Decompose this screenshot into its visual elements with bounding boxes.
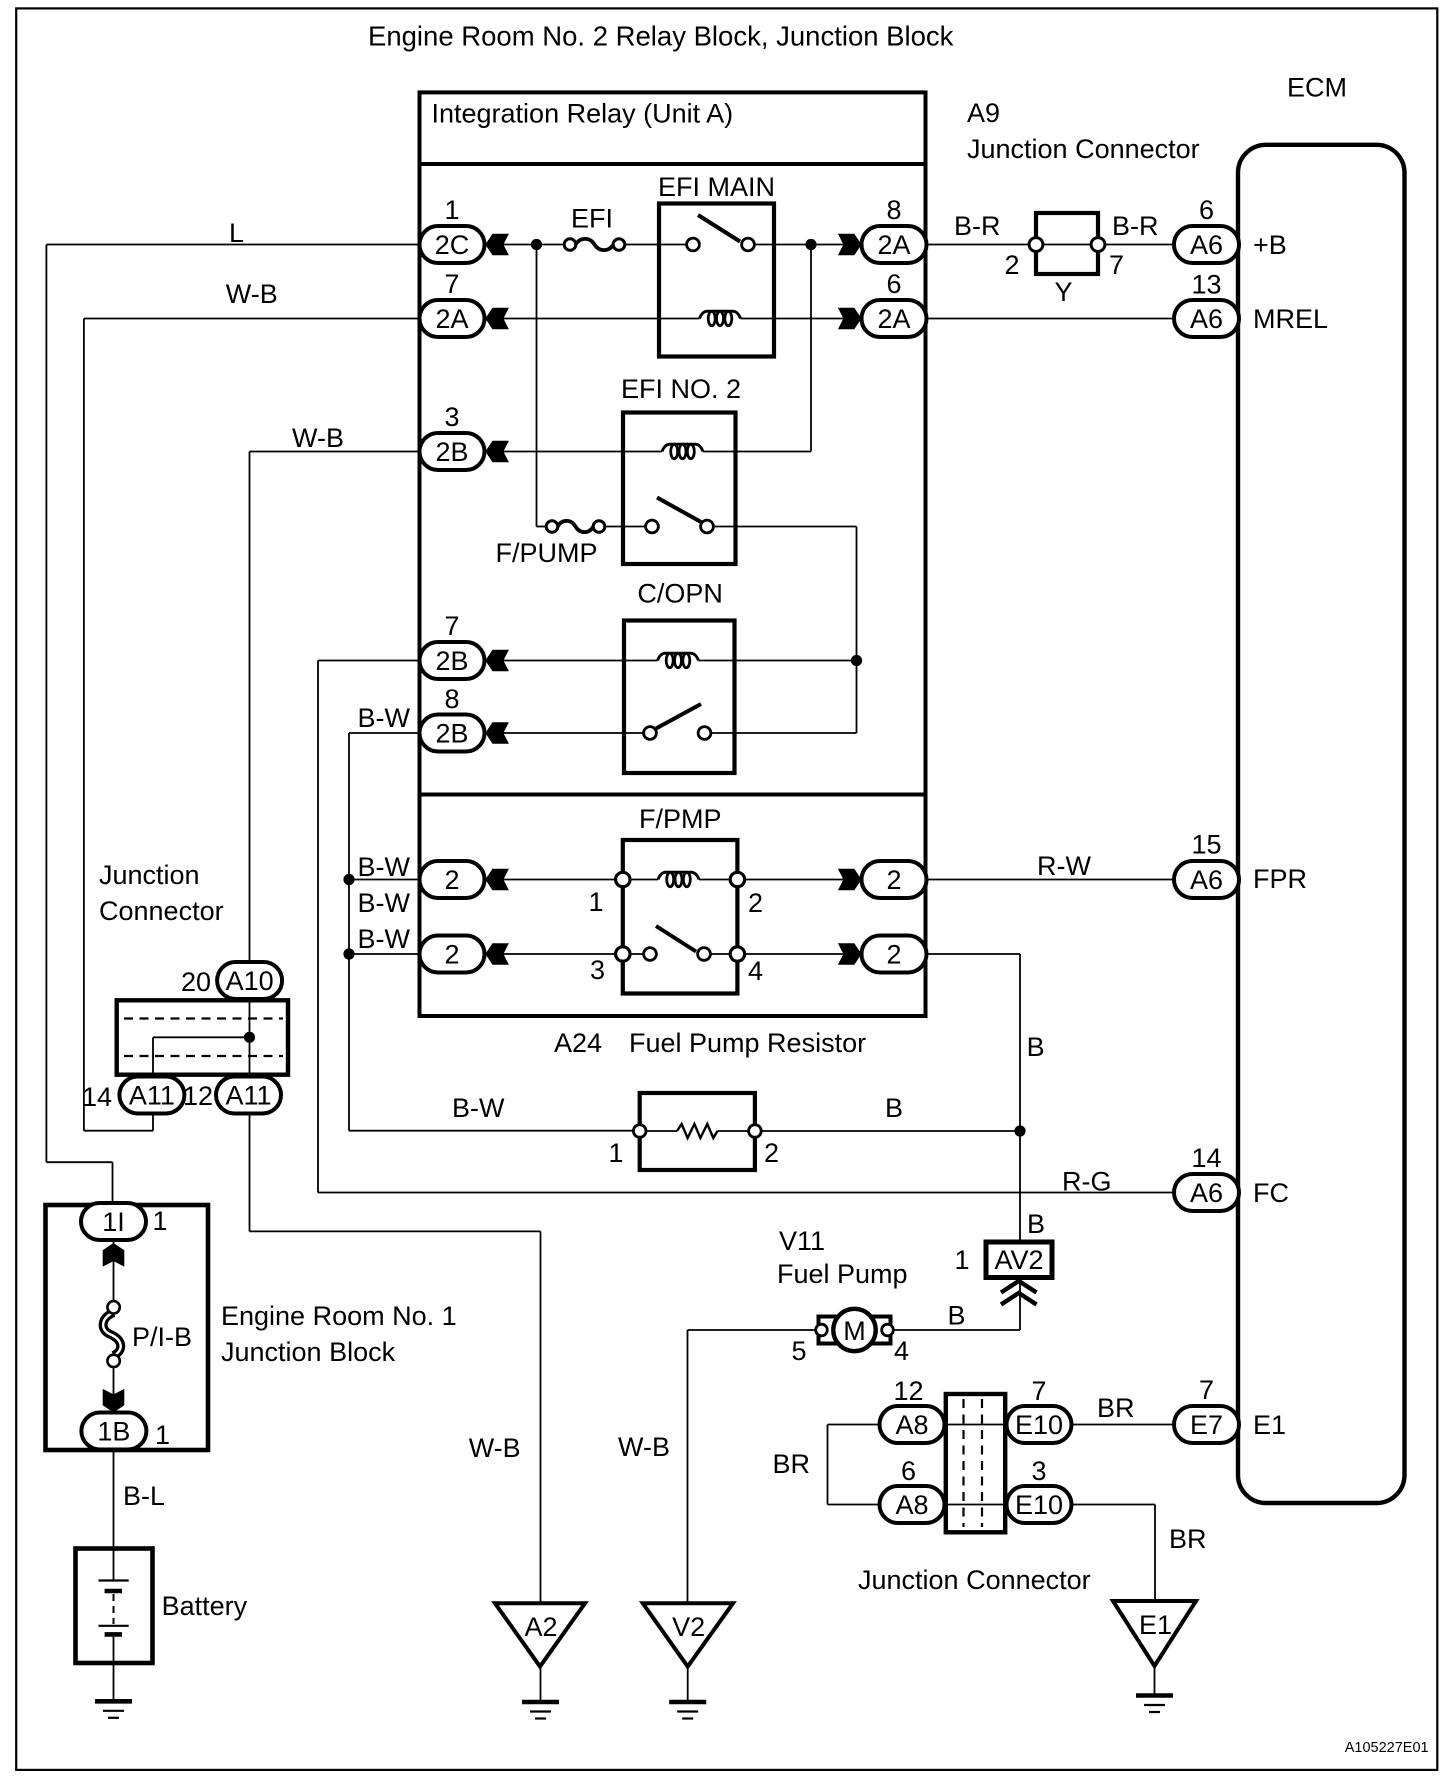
svg-text:E10: E10 — [1015, 1410, 1063, 1440]
wire EFI fuse to EFI MAIN switch — [619, 244, 693, 246]
connector AV2 chevrons — [1001, 1281, 1037, 1305]
A9 junction connector label — [967, 98, 1200, 164]
wire coil to F/PMP terminal2 — [699, 879, 737, 881]
battery cell plates — [99, 1581, 129, 1635]
wire label BR E7 — [1097, 1393, 1135, 1423]
wire label W-B row C — [292, 423, 344, 453]
connector A6 FC — [1174, 1143, 1239, 1211]
wire E1 stub — [1154, 1666, 1156, 1696]
svg-text:8: 8 — [444, 684, 459, 714]
connector 2A pin8 — [862, 195, 927, 263]
wire label BR bottom — [1169, 1524, 1207, 1554]
wire A10 vertical through junction connector — [249, 1000, 251, 1231]
svg-text:Y: Y — [1054, 277, 1072, 307]
svg-text:MREL: MREL — [1253, 304, 1328, 334]
svg-text:1: 1 — [155, 1420, 170, 1450]
svg-text:1: 1 — [444, 195, 459, 225]
connector 2 right row2 — [862, 936, 927, 973]
svg-text:13: 13 — [1191, 270, 1221, 300]
svg-text:A24: A24 — [554, 1028, 602, 1058]
junction connector Y pin7 — [1109, 250, 1124, 280]
svg-text:E1: E1 — [1253, 1410, 1286, 1440]
A24 label — [554, 1028, 866, 1058]
connector A6 MREL — [1174, 270, 1239, 338]
svg-text:A6: A6 — [1190, 230, 1223, 260]
relay EFI MAIN switch — [687, 215, 755, 251]
svg-text:2: 2 — [764, 1138, 779, 1168]
svg-text:A11: A11 — [129, 1081, 175, 1111]
integration relay outer box — [420, 92, 926, 1016]
junction connector left dashes — [124, 1019, 283, 1057]
battery box — [76, 1549, 153, 1664]
wire row E10 pin3 — [828, 1504, 1156, 1506]
svg-text:1: 1 — [608, 1138, 623, 1168]
svg-text:1: 1 — [954, 1245, 969, 1275]
junction connector left label — [99, 860, 224, 926]
wire fusible link to 1B — [113, 1367, 115, 1431]
svg-text:6: 6 — [886, 269, 901, 299]
svg-text:A6: A6 — [1190, 865, 1223, 895]
connector 1I — [81, 1203, 168, 1240]
relay F/PMP pin 4 — [748, 956, 763, 986]
wire label BR left — [772, 1449, 810, 1479]
wire V2 stub — [687, 1667, 689, 1703]
junction connector bottom box — [946, 1394, 1005, 1532]
resistor element — [677, 1124, 718, 1138]
wire label B-R right — [1112, 211, 1159, 241]
svg-text:2C: 2C — [435, 230, 470, 260]
svg-text:EFI: EFI — [571, 204, 613, 234]
wire resistor internal right — [718, 1130, 755, 1132]
arrow 2B pin3 — [485, 441, 509, 463]
connector A6 FPR — [1174, 830, 1239, 899]
arrow 2B pin7 — [485, 650, 509, 672]
svg-text:V2: V2 — [672, 1612, 705, 1642]
relay F/PMP pin 3 — [590, 955, 605, 985]
svg-text:C/OPN: C/OPN — [637, 579, 723, 609]
ground symbol V2 — [669, 1702, 706, 1719]
resistor pin 1 — [608, 1138, 623, 1168]
svg-text:6: 6 — [1199, 195, 1214, 225]
wire 2A pin8 to Y junction — [926, 244, 1036, 246]
svg-text:B: B — [1027, 1032, 1045, 1062]
wire 1I to fusible link — [113, 1222, 115, 1302]
svg-text:2: 2 — [886, 865, 901, 895]
junction connector bottom label — [858, 1565, 1091, 1595]
ECM pin +B label — [1253, 230, 1287, 260]
arrow 2 left row2 — [485, 943, 509, 965]
relay C/OPN box — [624, 621, 735, 774]
svg-text:A6: A6 — [1190, 1178, 1223, 1208]
wire label R-G — [1062, 1167, 1112, 1197]
motor M — [816, 1309, 894, 1351]
arrow 2A pin8 — [838, 234, 862, 256]
connector 2B pin8 — [420, 684, 485, 752]
relay EFI MAIN label — [658, 172, 775, 202]
relay F/PMP box — [623, 840, 738, 994]
svg-text:3: 3 — [1031, 1456, 1046, 1486]
wire A11 pin12 jog to A2 — [250, 1231, 541, 1603]
wire W-B from motor pin5 — [688, 1329, 816, 1331]
wire 2C to EFI fuse — [484, 244, 570, 246]
wire 2B pin3 to EFI NO.2 coil — [484, 451, 662, 453]
svg-text:EFI MAIN: EFI MAIN — [658, 172, 775, 202]
wire label B-W 1 — [358, 852, 411, 882]
svg-text:2: 2 — [444, 940, 459, 970]
wire label B above FC — [1027, 1032, 1045, 1062]
wire B motor pin4 to AV2 — [893, 1279, 1020, 1330]
wire R-G from 2B pin7 — [318, 660, 421, 662]
connector 2A pin7 — [420, 269, 485, 337]
wire F/PUMP fuse to EFI NO.2 switch — [599, 526, 652, 528]
svg-text:14: 14 — [82, 1082, 112, 1112]
svg-text:B-L: B-L — [123, 1481, 165, 1511]
svg-text:FC: FC — [1253, 1178, 1289, 1208]
fuse F/PUMP — [546, 521, 605, 533]
fusible link label — [132, 1322, 192, 1352]
svg-text:1B: 1B — [97, 1417, 130, 1447]
wire F/PMP terminal4 to right 2 oval — [737, 953, 866, 955]
ground triangle A2 — [495, 1603, 585, 1666]
svg-text:14: 14 — [1191, 1143, 1221, 1173]
wire R-G vertical — [317, 661, 319, 1193]
wire W-B from 2B pin3 — [250, 451, 422, 453]
connector AV2 box — [986, 1242, 1052, 1278]
wire node to F/PUMP fuse vertical — [536, 245, 538, 527]
junction connector Y terminals — [1029, 238, 1105, 252]
node dot C/OPN coil — [851, 655, 862, 666]
connector A11 pin12 — [183, 1077, 281, 1114]
arrow 2A pin7 — [485, 308, 509, 330]
wire R-W to A6 FPR — [926, 879, 1174, 881]
svg-text:A2: A2 — [524, 1612, 557, 1642]
svg-text:R-G: R-G — [1062, 1167, 1112, 1197]
relay F/PMP pin 2 — [748, 888, 763, 918]
arrow 2B pin8 — [485, 722, 509, 744]
resistor terminals — [633, 1125, 761, 1138]
junction connector bottom dashes — [964, 1399, 983, 1527]
ground triangle E1 — [1113, 1601, 1196, 1666]
svg-text:2A: 2A — [435, 304, 468, 334]
svg-text:FPR: FPR — [1253, 864, 1307, 894]
relay C/OPN coil — [658, 653, 699, 668]
wire label B-W pin8 — [358, 703, 411, 733]
svg-text:Connector: Connector — [99, 896, 224, 926]
wire label B-W 2 — [358, 888, 411, 918]
wire battery to ground — [113, 1637, 115, 1702]
wire node vertical x811 — [810, 245, 812, 452]
wire A2 stub — [540, 1667, 542, 1703]
junction block label — [221, 1301, 457, 1367]
connector A11 pin14 — [82, 1077, 184, 1114]
connector 2 right row1 — [862, 861, 927, 898]
svg-text:BR: BR — [772, 1449, 810, 1479]
svg-text:R-W: R-W — [1037, 851, 1091, 881]
svg-text:W-B: W-B — [226, 279, 278, 309]
svg-text:BR: BR — [1097, 1393, 1135, 1423]
wire W-B into 2A pin7 — [84, 318, 421, 320]
wire EFI NO.2 switch output — [707, 526, 857, 528]
node dot junction connector — [244, 1032, 255, 1043]
wire into F/PUMP fuse — [537, 526, 553, 528]
svg-text:B: B — [885, 1093, 903, 1123]
motor pin 5 — [791, 1336, 806, 1366]
fuse EFI — [564, 239, 625, 251]
svg-text:B-W: B-W — [452, 1093, 505, 1123]
wire label B-W resistor — [452, 1093, 505, 1123]
connector 2C pin1 — [420, 195, 485, 263]
wire B-W from 2B pin8 — [349, 732, 421, 734]
svg-text:7: 7 — [444, 269, 459, 299]
svg-text:B: B — [1027, 1209, 1045, 1239]
svg-text:2A: 2A — [877, 230, 910, 260]
ECM label — [1287, 73, 1347, 103]
wire row E7: A8 pin12 to E7 — [828, 1424, 1175, 1426]
fuse F/PUMP label — [496, 538, 598, 568]
wire B-W branch to 2 oval row1 — [349, 879, 421, 881]
relay F/PMP terminals — [616, 872, 745, 961]
svg-text:8: 8 — [886, 195, 901, 225]
ground symbol E1 — [1136, 1696, 1173, 1713]
svg-text:3: 3 — [590, 955, 605, 985]
svg-text:20: 20 — [181, 967, 211, 997]
svg-text:B-W: B-W — [358, 852, 411, 882]
resistor pin 2 — [764, 1138, 779, 1168]
node dot B-W row1 — [343, 874, 354, 885]
svg-text:15: 15 — [1191, 830, 1221, 860]
svg-text:A105227E01: A105227E01 — [1345, 1740, 1429, 1756]
relay EFI NO.2 coil — [662, 444, 703, 458]
svg-text:W-B: W-B — [618, 1432, 670, 1462]
wire BR left U — [827, 1425, 829, 1505]
relay F/PMP label — [639, 804, 722, 834]
arrow 2 right row2 — [838, 943, 862, 965]
wire C/OPN switch output — [705, 732, 857, 734]
arrow down 1B — [103, 1389, 125, 1413]
svg-text:+B: +B — [1253, 230, 1287, 260]
wire label W-B V2 — [618, 1432, 670, 1462]
connector 2B pin7 — [420, 611, 485, 679]
connector 2A pin6 — [862, 269, 927, 337]
svg-text:2: 2 — [1004, 250, 1019, 280]
wire label B-R left — [954, 211, 1001, 241]
wire F/PMP terminal2 to right 2 oval — [737, 879, 866, 881]
wire B vertical to AV2 — [1019, 954, 1021, 1240]
wire W-B vertical to V2 — [687, 1330, 689, 1603]
wire vertical x856 to C/OPN — [856, 527, 858, 734]
wire 2A pin6 to A6 MREL — [926, 318, 1174, 320]
wire label B below FC — [1027, 1209, 1045, 1239]
relay EFI MAIN coil — [700, 311, 741, 325]
wire through Y junction — [1036, 244, 1098, 246]
ECM box — [1238, 145, 1405, 1503]
wire B from resistor pin2 — [755, 1130, 1020, 1132]
svg-text:6: 6 — [901, 1456, 916, 1486]
title text — [368, 21, 954, 52]
svg-text:Battery: Battery — [162, 1591, 248, 1621]
relay EFI NO.2 switch — [646, 498, 714, 533]
wire label L — [229, 218, 244, 248]
svg-text:1: 1 — [588, 887, 603, 917]
svg-text:2: 2 — [886, 940, 901, 970]
svg-text:B: B — [948, 1301, 966, 1331]
arrow 2A pin6 — [838, 308, 862, 330]
svg-text:A9: A9 — [967, 98, 1000, 128]
wire label B resistor right — [885, 1093, 903, 1123]
svg-text:E10: E10 — [1015, 1490, 1063, 1520]
svg-text:V11: V11 — [779, 1226, 825, 1256]
wire EFI MAIN coil to 2A pin6 — [741, 318, 867, 320]
connector AV2 pin1 — [954, 1245, 969, 1275]
svg-text:Junction Connector: Junction Connector — [967, 134, 1200, 164]
junction connector Y pin2 — [1004, 250, 1019, 280]
connector E7 pin7 — [1174, 1375, 1239, 1443]
ground triangle V2 — [643, 1603, 733, 1666]
junction connector Y box — [1036, 213, 1098, 274]
svg-text:W-B: W-B — [292, 423, 344, 453]
relay EFI MAIN box — [659, 204, 774, 357]
svg-text:A11: A11 — [225, 1081, 271, 1111]
junction connector left box — [117, 1000, 288, 1074]
battery label — [162, 1591, 248, 1621]
arrow up 1I — [103, 1243, 125, 1267]
svg-text:AV2: AV2 — [994, 1245, 1043, 1275]
svg-text:7: 7 — [444, 611, 459, 641]
relay C/OPN switch — [644, 704, 711, 739]
battery ground — [95, 1701, 132, 1718]
ground symbol A2 — [522, 1702, 559, 1719]
wire B-W branch to 2 oval row2 — [349, 953, 421, 955]
svg-text:Junction Block: Junction Block — [221, 1337, 396, 1367]
relay C/OPN label — [637, 579, 723, 609]
connector 1B — [81, 1413, 170, 1451]
node dot 2C/EFI — [531, 239, 542, 250]
svg-text:E1: E1 — [1139, 1610, 1172, 1640]
relay F/PMP coil — [658, 872, 699, 887]
wire label R-W — [1037, 851, 1091, 881]
svg-text:ECM: ECM — [1287, 73, 1347, 103]
wire EFI MAIN switch to 2A pin8 — [748, 244, 866, 246]
connector A10 pin20 — [181, 962, 282, 999]
wire Y junction to A6 +B — [1098, 244, 1174, 246]
junction block box — [46, 1205, 209, 1450]
connector A8 pin6 — [880, 1456, 945, 1523]
node dot B-W row2 — [343, 948, 354, 959]
wire label B motor — [948, 1301, 966, 1331]
wire L net: horizontal into 2C pin — [46, 244, 421, 246]
svg-text:Fuel Pump Resistor: Fuel Pump Resistor — [629, 1028, 866, 1058]
svg-text:2B: 2B — [435, 719, 468, 749]
wire 2 oval to F/PMP terminal 1 — [484, 879, 623, 881]
svg-text:Integration Relay (Unit A): Integration Relay (Unit A) — [432, 99, 734, 129]
ECM pin FPR label — [1253, 864, 1307, 894]
wire EFI NO.2 coil to node — [703, 451, 811, 453]
svg-text:Junction: Junction — [99, 860, 200, 890]
svg-text:5: 5 — [791, 1336, 806, 1366]
svg-text:L: L — [229, 218, 244, 248]
wire 2B pin8 to C/OPN switch — [484, 732, 650, 734]
svg-text:A8: A8 — [895, 1490, 928, 1520]
svg-text:2: 2 — [444, 865, 459, 895]
wire W-B left vertical — [83, 319, 85, 1131]
connector A8 pin12 — [880, 1376, 945, 1443]
connector E10 pin7 — [1007, 1376, 1072, 1443]
svg-text:1: 1 — [153, 1206, 168, 1236]
ECM pin FC label — [1253, 1178, 1289, 1208]
fuse EFI label — [571, 204, 613, 234]
svg-text:3: 3 — [444, 402, 459, 432]
svg-text:B-W: B-W — [358, 888, 411, 918]
svg-text:12: 12 — [893, 1376, 923, 1406]
svg-text:F/PMP: F/PMP — [639, 804, 722, 834]
wire BR down to E1 ground — [1154, 1505, 1156, 1602]
svg-text:2: 2 — [748, 888, 763, 918]
svg-text:E7: E7 — [1190, 1410, 1223, 1440]
svg-text:A6: A6 — [1190, 304, 1223, 334]
wire R-G to A6 FC — [318, 1192, 1174, 1194]
wire B-W vertical x349 — [348, 733, 350, 1131]
wire resistor internal left — [640, 1130, 677, 1132]
svg-text:B-W: B-W — [358, 703, 411, 733]
motor pin 4 — [894, 1336, 909, 1366]
ECM pin MREL label — [1253, 304, 1328, 334]
ECM pin E1 label — [1253, 1410, 1286, 1440]
wire W-B bottom jog to A11 pin14 — [84, 1037, 153, 1130]
wire F/PMP terminal1 to coil — [623, 879, 658, 881]
wire label B-W 3 — [358, 924, 411, 954]
svg-text:A8: A8 — [895, 1410, 928, 1440]
connector E10 pin3 — [1007, 1456, 1072, 1523]
svg-text:A10: A10 — [226, 966, 274, 996]
svg-text:4: 4 — [748, 956, 763, 986]
wire L net: left vertical drop — [45, 245, 47, 1163]
svg-text:4: 4 — [894, 1336, 909, 1366]
node dot B resistor — [1014, 1125, 1025, 1136]
connector 2B pin3 — [420, 402, 485, 470]
svg-text:2B: 2B — [435, 646, 468, 676]
arrow 2C — [485, 234, 509, 256]
wire F/PMP switch output to terminal4 — [704, 953, 737, 955]
wire 2B pin7 to C/OPN coil — [484, 660, 658, 662]
svg-text:B-R: B-R — [1112, 211, 1159, 241]
svg-text:Engine Room No. 1: Engine Room No. 1 — [221, 1301, 457, 1331]
svg-text:F/PUMP: F/PUMP — [496, 538, 598, 568]
node dot EFI MAIN output — [805, 239, 816, 250]
svg-text:2B: 2B — [435, 437, 468, 467]
svg-text:Engine Room No. 2 Relay Block,: Engine Room No. 2 Relay Block, Junction … — [368, 21, 954, 52]
svg-text:B-W: B-W — [358, 924, 411, 954]
relay EFI NO.2 label — [621, 374, 741, 404]
wire 2A pin7 to EFI MAIN coil — [484, 318, 700, 320]
wire right 2 oval to B vertical — [926, 953, 1020, 955]
connector A6 +B — [1174, 195, 1239, 263]
svg-text:P/I-B: P/I-B — [132, 1322, 192, 1352]
doc number — [1345, 1740, 1429, 1756]
svg-text:7: 7 — [1199, 1375, 1214, 1405]
svg-text:Junction Connector: Junction Connector — [858, 1565, 1091, 1595]
fusible link P/I-B — [103, 1301, 121, 1367]
wire B-W to resistor pin1 — [349, 1130, 640, 1132]
wire W-B vertical to A10 — [249, 452, 251, 999]
junction connector Y name — [1054, 277, 1072, 307]
arrow 2 left row1 — [485, 869, 509, 891]
integration relay section separator — [420, 793, 926, 797]
svg-text:Fuel Pump: Fuel Pump — [777, 1259, 908, 1289]
svg-text:1I: 1I — [102, 1207, 125, 1237]
wire label W-B row B — [226, 279, 278, 309]
relay F/PMP switch — [644, 926, 711, 960]
svg-text:7: 7 — [1109, 250, 1124, 280]
